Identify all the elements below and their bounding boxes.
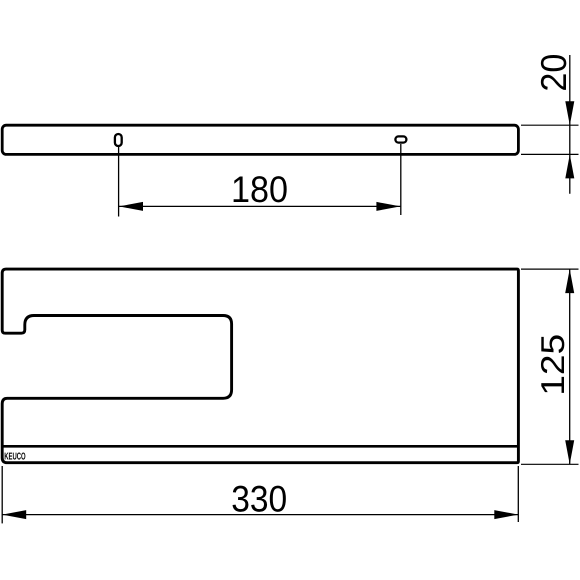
front view profile outline [2,269,518,463]
dimension line 20 vertical [569,55,571,194]
svg-text:330: 330 [231,479,287,520]
arrowhead left of dim 180 [119,202,143,211]
extension line left of dim 330 [1,466,3,523]
arrowhead up at bottom of dim 20 [565,154,574,178]
extension line right of dim 330 [517,466,519,522]
extension line top of dim 125 [521,268,579,270]
svg-text:20: 20 [533,54,574,92]
extension line from hole H1 [118,147,120,217]
dimension line 125 vertical [569,269,571,464]
arrowhead up at top of dim 125 [565,269,574,293]
dimension line 330 [2,514,518,516]
dimension line 180 [119,205,400,207]
mounting hole H2 (horizontal slot) [395,136,406,142]
front lip strip line [2,445,517,448]
extension line bottom of dim 125 [521,463,579,465]
svg-text:KEUCO: KEUCO [4,451,26,462]
arrowhead right of dim 330 [494,510,518,519]
arrowhead right of dim 180 [376,202,400,211]
extension line bottom of dim 20 [521,153,579,155]
arrowhead down at top of dim 20 [565,101,574,125]
arrowhead down at bottom of dim 125 [565,440,574,464]
mounting hole H1 (vertical slot) [115,134,122,146]
arrowhead left of dim 330 [2,510,26,519]
svg-text:125: 125 [534,334,571,396]
svg-text:180: 180 [231,169,288,210]
extension line top of dim 20 [521,124,579,126]
extension line from hole H2 [400,144,402,215]
top view bar outline [2,125,518,154]
